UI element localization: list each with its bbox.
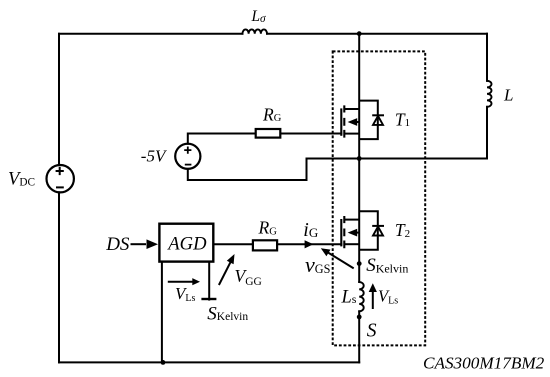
svg-text:AGD: AGD xyxy=(166,233,207,254)
svg-text:-5V: -5V xyxy=(141,146,168,165)
svg-text:S: S xyxy=(367,321,377,342)
svg-text:DS: DS xyxy=(105,234,130,255)
svg-text:CAS300M17BM2: CAS300M17BM2 xyxy=(423,354,545,373)
svg-text:L: L xyxy=(503,85,513,104)
